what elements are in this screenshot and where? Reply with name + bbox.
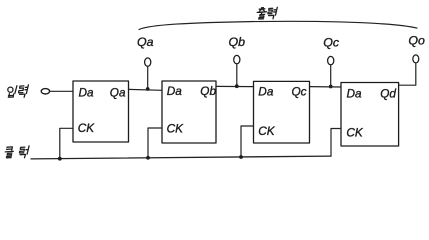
terminal Qb xyxy=(234,55,240,63)
junction clock CK1 xyxy=(58,157,62,161)
svg-text:CK: CK xyxy=(167,122,185,136)
svg-text:Qa: Qa xyxy=(137,35,154,49)
svg-text:CK: CK xyxy=(346,125,364,139)
wire clock to CK2 xyxy=(148,128,162,158)
label 입력 (input) xyxy=(8,85,29,97)
svg-text:Da: Da xyxy=(79,86,95,100)
flip-flop U4 box xyxy=(341,83,399,147)
wire FF1.Q to FF2.D xyxy=(129,88,163,91)
wire clock to CK3 xyxy=(241,126,254,157)
junction Qa xyxy=(146,87,150,91)
svg-text:Qo: Qo xyxy=(408,34,425,48)
svg-text:Qd: Qd xyxy=(380,86,396,100)
terminal input xyxy=(41,89,49,94)
wire Qa stem xyxy=(147,66,149,89)
terminal Qc xyxy=(328,56,334,64)
overbrace spanning outputs xyxy=(139,21,417,29)
wire Qo stem and run to FF4 xyxy=(399,63,416,85)
flip-flop U3 box xyxy=(254,81,310,143)
junction clock CK3 xyxy=(239,155,243,159)
wire input to FF1 xyxy=(50,90,73,92)
terminal Qo xyxy=(413,55,419,63)
label 클럭 (clock) xyxy=(5,146,29,158)
svg-text:Qc: Qc xyxy=(292,84,307,98)
junction Qb xyxy=(235,84,239,88)
svg-text:CK: CK xyxy=(78,121,96,135)
junction clock CK2 xyxy=(146,156,150,160)
wire FF2.Q to FF3.D xyxy=(216,85,254,87)
label 출력 (output) xyxy=(257,7,277,19)
svg-text:Qa: Qa xyxy=(110,86,126,100)
flip-flop U2 box xyxy=(162,81,216,143)
wire clock to CK1 xyxy=(60,128,73,158)
svg-text:Da: Da xyxy=(347,86,363,100)
wire clock bus xyxy=(31,156,331,159)
svg-text:Qb: Qb xyxy=(229,35,246,49)
terminal Qa xyxy=(145,58,151,66)
svg-text:Da: Da xyxy=(258,84,274,98)
wire Qc stem xyxy=(330,65,332,87)
svg-text:Da: Da xyxy=(167,84,183,98)
wire FF3.Q to FF4.D xyxy=(310,86,342,88)
flip-flop U1 box xyxy=(73,81,129,142)
svg-text:Qc: Qc xyxy=(323,36,340,50)
svg-text:CK: CK xyxy=(258,124,276,138)
svg-text:Qb: Qb xyxy=(200,84,216,98)
wire Qb stem xyxy=(236,64,238,87)
wire clock to CK4 xyxy=(331,129,341,157)
junction Qc xyxy=(329,85,333,89)
